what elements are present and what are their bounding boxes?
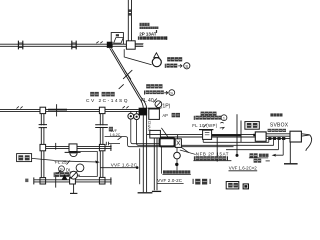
- genkan label box: [245, 122, 259, 130]
- wire vertical x237: [237, 114, 241, 155]
- AP leader into box: [161, 128, 169, 138]
- wp outlet symbol: [199, 129, 213, 131]
- svg-text:S: S: [170, 91, 173, 96]
- bundle lines mid: [266, 134, 290, 139]
- meter inner symbol: [114, 38, 124, 44]
- wire wall-top double line: [0, 44, 143, 46]
- label roden-shadanki TR line4: [138, 36, 139, 39]
- room label leader: [32, 158, 54, 160]
- room wire loop: [77, 152, 98, 177]
- service drop line: [110, 48, 147, 192]
- svg-text:VVF22: VVF22: [148, 121, 152, 131]
- post box at riser base: [126, 41, 135, 49]
- downlight semicircle: [70, 153, 77, 157]
- switch circle nfb: [174, 152, 181, 159]
- switch stem and dot: [176, 159, 178, 170]
- vent fan triangle: [62, 174, 68, 180]
- label tsunagi: [268, 129, 286, 132]
- post A6: [99, 177, 105, 184]
- post A4: [40, 178, 46, 184]
- drip loop curve: [306, 135, 312, 151]
- pendant light: [76, 164, 84, 172]
- riser label: [129, 9, 132, 12]
- label shomei toilet: [250, 153, 258, 157]
- label kisetsu TR line1: [140, 23, 150, 26]
- connector blobs under bundle: [268, 137, 271, 140]
- wire from switch1: [131, 119, 161, 144]
- bundle line 2: [160, 136, 255, 138]
- meter box outline: [111, 33, 123, 44]
- label kaiheiki box TR line2: [140, 27, 159, 30]
- wire end ticks: [106, 142, 120, 146]
- wall-bottom right end tick: [110, 177, 112, 184]
- stray mark: [25, 179, 28, 183]
- wall-bottom double line: [34, 180, 112, 182]
- wire outer loop: [105, 137, 234, 147]
- label by entrance line1: [167, 57, 182, 61]
- circled S + DL: [59, 166, 65, 172]
- leader NFB: [180, 150, 196, 154]
- post A1: [40, 107, 46, 113]
- post A7: [70, 177, 76, 184]
- label bousui-consent 1: [194, 116, 195, 120]
- wall stub right of post: [135, 44, 143, 46]
- post A3: [40, 144, 46, 150]
- bundle line thick segment: [211, 134, 242, 136]
- switch circle 1: [128, 113, 134, 119]
- label by entrance line2: [165, 64, 166, 68]
- small device box: [175, 139, 181, 148]
- branch arrow line: [274, 140, 283, 155]
- outlet box on wall end: [148, 107, 161, 109]
- wire from switch2: [137, 120, 274, 146]
- wall-mid double line: [46, 146, 112, 148]
- device tail: [181, 147, 188, 152]
- label kisetsu hikikomisen: [90, 92, 99, 97]
- mark near window w2: [109, 127, 113, 132]
- svg-text:(1P): (1P): [161, 103, 171, 109]
- ceiling box on wall-mid: [69, 144, 77, 152]
- wire pair end bar: [152, 190, 161, 192]
- wedge to service point: [302, 134, 310, 136]
- svg-text:NFB 2P 15AT: NFB 2P 15AT: [196, 152, 229, 157]
- legend filled square: [243, 183, 249, 189]
- label shomei-consent-kairo: [163, 170, 190, 173]
- svg-text:1: 1: [223, 117, 225, 121]
- room label box: [17, 154, 32, 162]
- gray equipment box: [160, 138, 175, 146]
- door lintel: [48, 109, 67, 111]
- post A2: [99, 107, 105, 113]
- ground drop below wall: [73, 184, 75, 193]
- wall-2 vertical: [100, 114, 103, 178]
- label kisetsu svbox: [270, 113, 282, 116]
- wall plan-top double line: [0, 109, 139, 111]
- svg-text:VVF 1.6-2C: VVF 1.6-2C: [111, 162, 138, 167]
- svg-text:AP: AP: [162, 113, 168, 118]
- label bousui-consent S: [144, 91, 145, 95]
- svg-text:SVBOX: SVBOX: [270, 123, 289, 129]
- wall-mid end tick: [110, 144, 112, 151]
- label senyo-consent: [194, 156, 195, 160]
- bundle box2: [290, 131, 301, 142]
- wall-mid door tick: [55, 143, 57, 150]
- branch stair 2: [273, 140, 275, 146]
- ground wire and bar: [289, 142, 291, 163]
- cable slash mark: [123, 70, 132, 79]
- lamp circle 1P: [155, 101, 162, 108]
- outlet circle bottom wall: [70, 171, 78, 179]
- post A5: [99, 144, 105, 150]
- tick marks mid: [123, 106, 129, 108]
- svg-text:2P 13AT: 2P 13AT: [139, 31, 157, 36]
- wire pair below pullbox: [154, 138, 157, 190]
- pipe joint J2: [72, 41, 76, 50]
- circled S entrance: [184, 63, 190, 69]
- label kanki: [254, 159, 262, 163]
- doma label box: [226, 182, 239, 189]
- wire down x217: [216, 137, 218, 162]
- branch stair 1: [203, 140, 269, 143]
- wire to wall-2 arrow: [54, 161, 98, 162]
- svg-text:S: S: [185, 64, 188, 69]
- wire vertical x139.7: [139, 148, 141, 184]
- wire post to entrance cap: [124, 49, 151, 65]
- entrance cap circle: [152, 58, 161, 67]
- junction black box: [107, 42, 113, 48]
- svg-text:FL 25: FL 25: [55, 159, 67, 164]
- bundle line top: [147, 134, 255, 136]
- bundle box1: [255, 132, 266, 141]
- small marks under circled1: [220, 122, 224, 129]
- pipe joint J1: [18, 41, 22, 50]
- dark tick before box1: [253, 134, 255, 136]
- wire under VVF label: [100, 167, 136, 169]
- wall-bottom left end tick: [33, 177, 35, 184]
- branch stair 3: [226, 140, 278, 150]
- window w2: [95, 125, 108, 128]
- entrance cap triangle: [154, 53, 159, 58]
- label (jitaku): [193, 179, 194, 184]
- tick marks on wall: [96, 41, 102, 43]
- wall-bottom door tick: [55, 175, 57, 188]
- switch circle 2: [134, 114, 140, 120]
- window w1: [39, 125, 47, 128]
- service drop end bar: [138, 192, 153, 194]
- service riser pipe: [128, 0, 131, 41]
- small mark above triangle: [58, 170, 61, 173]
- label kisetsu wp: [201, 112, 217, 116]
- svg-text:1.6-2C: 1.6-2C: [110, 133, 121, 137]
- label kisetsu upper: [146, 84, 162, 88]
- svg-text:VVF 1.6-2C×2: VVF 1.6-2C×2: [229, 166, 258, 171]
- svg-text:VVF 2.0-2C: VVF 2.0-2C: [157, 178, 183, 183]
- short wire x161: [160, 147, 162, 174]
- svg-text:FL 40: FL 40: [141, 98, 154, 104]
- cable tick: [119, 84, 124, 89]
- wall end black box: [139, 108, 148, 116]
- tick marks left: [17, 106, 23, 108]
- pullbox2: [150, 130, 161, 138]
- wall-1 vertical: [41, 114, 44, 178]
- svg-text:CV 2C-14SQ: CV 2C-14SQ: [86, 98, 129, 104]
- label kisetsu-isetsu: [54, 172, 55, 177]
